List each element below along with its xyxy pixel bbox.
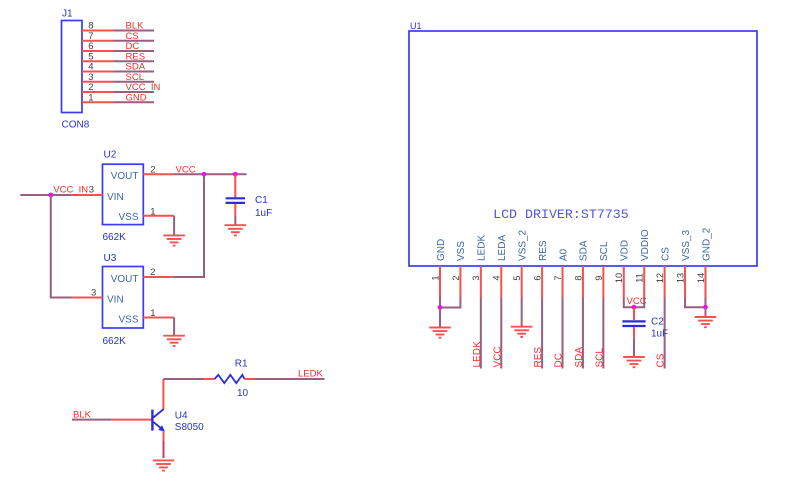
wire pin10 elbow <box>624 298 634 308</box>
ground C2 <box>623 357 645 367</box>
regulator U2 body <box>103 164 144 224</box>
svg-text:LEDA: LEDA <box>497 235 508 261</box>
wire pin9 drop <box>602 298 604 369</box>
svg-text:10: 10 <box>614 273 624 283</box>
IC U1 body <box>409 31 757 266</box>
svg-text:VOUT: VOUT <box>111 274 139 285</box>
wire pin6 drop <box>541 298 543 369</box>
svg-text:3: 3 <box>89 185 94 196</box>
svg-text:SDA: SDA <box>579 240 590 261</box>
pin 4 (LEDA) of U1 <box>500 266 502 298</box>
pin 3 of J1 <box>82 81 114 83</box>
wire VCC_IN horizontal <box>20 194 72 196</box>
pin emitter of U4 <box>163 431 165 441</box>
ground U1 pin14 <box>695 317 717 327</box>
resistor R1 <box>215 375 245 383</box>
svg-text:2: 2 <box>451 275 461 280</box>
resistor R1 right lead <box>245 378 256 380</box>
pin 14 (GND_2) of U1 <box>704 266 706 298</box>
svg-text:VSS_3: VSS_3 <box>681 229 692 261</box>
wire pin7 drop <box>562 298 564 369</box>
svg-text:R1: R1 <box>235 359 248 370</box>
svg-text:C1: C1 <box>255 195 268 206</box>
svg-text:1: 1 <box>430 275 440 280</box>
svg-text:U3: U3 <box>104 253 117 264</box>
wire U3 VOUT horizontal <box>173 276 205 278</box>
pin collector of U4 <box>162 379 164 409</box>
svg-text:LEDK: LEDK <box>472 341 483 367</box>
pin 6 (RES) of U1 <box>541 266 543 298</box>
svg-text:6: 6 <box>533 275 543 280</box>
svg-text:4: 4 <box>492 275 502 280</box>
wire pin5 to ground <box>521 298 523 327</box>
pin 3 of U3 <box>72 297 103 299</box>
capacitor C2 bottom lead <box>633 327 635 338</box>
pin 9 (SCL) of U1 <box>602 266 604 298</box>
svg-text:GND: GND <box>436 239 447 261</box>
svg-text:J1: J1 <box>62 9 73 20</box>
svg-text:9: 9 <box>594 275 604 280</box>
svg-text:7: 7 <box>553 275 563 280</box>
wire BLK horizontal <box>72 419 112 421</box>
wire collector to R1 <box>163 378 204 380</box>
svg-text:S8050: S8050 <box>175 422 204 433</box>
junction GND_2 node <box>703 305 708 310</box>
pin 8 (SDA) of U1 <box>582 266 584 298</box>
pin 1 (GND) of U1 <box>439 266 441 298</box>
junction GND node <box>438 305 443 310</box>
svg-text:DC: DC <box>554 353 565 367</box>
junction VCC_IN node <box>48 193 53 198</box>
svg-text:8: 8 <box>573 275 583 280</box>
wire C2 to ground <box>633 338 635 357</box>
wire net GND <box>114 101 155 103</box>
svg-text:10: 10 <box>237 388 249 399</box>
wire net VCC_IN <box>114 91 155 93</box>
svg-text:SCL: SCL <box>594 348 605 368</box>
wire node to ground <box>439 308 441 328</box>
svg-text:GND_2: GND_2 <box>701 227 712 261</box>
svg-text:VDDIO: VDDIO <box>640 229 651 261</box>
svg-text:VCC_IN: VCC_IN <box>53 184 88 195</box>
wire VCC horizontal <box>173 173 246 175</box>
wire net SCL <box>114 81 155 83</box>
capacitor C2 top lead <box>633 307 635 320</box>
pin 11 (VDDIO) of U1 <box>643 266 645 298</box>
svg-text:VIN: VIN <box>107 294 124 305</box>
svg-text:662K: 662K <box>103 232 127 243</box>
svg-text:VCC: VCC <box>176 164 196 175</box>
connector J1 body <box>62 21 83 113</box>
wire pin12 drop <box>664 298 666 369</box>
pin 2 of U2 <box>143 173 173 175</box>
pin 2 of J1 <box>82 91 114 93</box>
junction VDD node <box>632 305 637 310</box>
regulator U3 body <box>103 267 144 329</box>
ground C1 <box>225 225 247 235</box>
ground U4 emitter <box>153 460 175 470</box>
wire net DC <box>114 50 155 52</box>
svg-text:RES: RES <box>533 347 544 368</box>
wire pin11 elbow <box>634 298 644 308</box>
pin 7 (A0) of U1 <box>562 266 564 298</box>
pin 6 of J1 <box>82 50 114 52</box>
svg-text:A0: A0 <box>558 248 569 261</box>
svg-text:11: 11 <box>635 273 645 283</box>
svg-text:U1: U1 <box>410 21 422 31</box>
svg-text:3: 3 <box>471 275 481 280</box>
svg-text:SDA: SDA <box>574 347 585 368</box>
svg-text:1: 1 <box>150 308 155 319</box>
ground U2 VSS <box>163 235 185 245</box>
svg-text:1: 1 <box>88 92 93 103</box>
wire pin3 drop <box>480 298 482 369</box>
resistor R1 left lead <box>204 378 214 380</box>
wire emitter to ground <box>163 441 165 458</box>
svg-text:14: 14 <box>696 273 706 283</box>
wire U3 VOUT riser <box>203 174 205 277</box>
svg-text:VSS: VSS <box>456 241 467 261</box>
wire VCC_IN vertical to U3 <box>50 195 52 298</box>
wire U2 VSS down <box>173 216 175 236</box>
svg-text:VOUT: VOUT <box>111 171 139 182</box>
svg-text:VSS: VSS <box>118 314 138 325</box>
wire pin4 drop <box>500 298 502 369</box>
svg-text:VDD: VDD <box>620 240 631 261</box>
pin 1 of J1 <box>82 101 114 103</box>
svg-text:12: 12 <box>655 273 665 283</box>
svg-text:2: 2 <box>150 164 155 175</box>
transistor U4 <box>152 409 164 432</box>
svg-text:CS: CS <box>656 353 667 367</box>
svg-text:1uF: 1uF <box>651 329 668 340</box>
pin 5 of J1 <box>82 60 114 62</box>
pin 4 of J1 <box>82 71 114 73</box>
svg-text:RES: RES <box>538 240 549 261</box>
svg-text:C2: C2 <box>651 317 664 328</box>
svg-text:13: 13 <box>675 273 685 283</box>
capacitor C2 plates <box>622 321 645 326</box>
svg-text:VCC: VCC <box>492 346 503 367</box>
pin 2 (VSS) of U1 <box>459 266 461 298</box>
svg-text:1: 1 <box>150 206 155 217</box>
wire pin8 drop <box>582 298 584 369</box>
svg-text:U2: U2 <box>104 150 117 161</box>
wire C1 to ground <box>234 216 236 225</box>
junction VCC/U3 riser <box>202 172 207 177</box>
pin 2 of U3 <box>143 276 173 278</box>
pin 1 of U3 <box>143 317 174 319</box>
svg-text:LCD DRIVER:ST7735: LCD DRIVER:ST7735 <box>493 207 629 222</box>
ground U3 VSS <box>163 336 185 346</box>
svg-text:662K: 662K <box>103 336 127 347</box>
svg-text:LEDK: LEDK <box>298 369 323 380</box>
pin 3 (LEDK) of U1 <box>480 266 482 298</box>
ground U1 pin5 <box>511 327 533 337</box>
svg-text:VCC: VCC <box>627 296 647 307</box>
svg-text:U4: U4 <box>175 410 188 421</box>
svg-text:GND: GND <box>126 92 147 103</box>
wire net SDA <box>114 71 155 73</box>
svg-text:1uF: 1uF <box>255 208 272 219</box>
svg-text:VSS: VSS <box>118 212 138 223</box>
wire pin13 elbow <box>685 298 705 308</box>
svg-text:VIN: VIN <box>107 192 124 203</box>
capacitor C1 top lead <box>234 174 236 197</box>
wire pin2 elbow <box>440 298 460 308</box>
wire pin1 to node <box>439 298 441 308</box>
wire LEDK <box>255 378 325 380</box>
svg-text:VSS_2: VSS_2 <box>517 229 528 261</box>
svg-text:SCL: SCL <box>599 241 610 261</box>
pin 1 of U2 <box>143 215 174 217</box>
pin 7 of J1 <box>82 40 114 42</box>
wire pin14 to node <box>704 298 706 308</box>
svg-text:CON8: CON8 <box>62 120 90 131</box>
svg-text:5: 5 <box>512 275 522 280</box>
wire node to ground (pin14) <box>704 307 706 317</box>
svg-text:2: 2 <box>150 267 155 278</box>
svg-text:LEDK: LEDK <box>477 235 488 261</box>
pin base of U4 <box>112 419 152 421</box>
wire VCC_IN to U3 VIN <box>50 297 72 299</box>
pin 13 (VSS_3) of U1 <box>684 266 686 298</box>
capacitor C1 bottom lead <box>234 204 236 216</box>
wire U3 VSS down <box>173 318 175 336</box>
svg-text:3: 3 <box>91 287 96 298</box>
ground U1 pin1 <box>429 328 451 338</box>
junction C1 top <box>233 172 238 177</box>
pin 5 (VSS_2) of U1 <box>521 266 523 298</box>
pin 10 (VDD) of U1 <box>623 266 625 298</box>
capacitor C1 plates <box>226 198 245 203</box>
wire net BLK <box>114 30 155 32</box>
wire net RES <box>114 60 155 62</box>
pin 3 of U2 <box>72 194 103 196</box>
svg-text:CS: CS <box>660 247 671 261</box>
pin 12 (CS) of U1 <box>664 266 666 298</box>
wire net CS <box>114 40 155 42</box>
pin 8 of J1 <box>82 30 114 32</box>
